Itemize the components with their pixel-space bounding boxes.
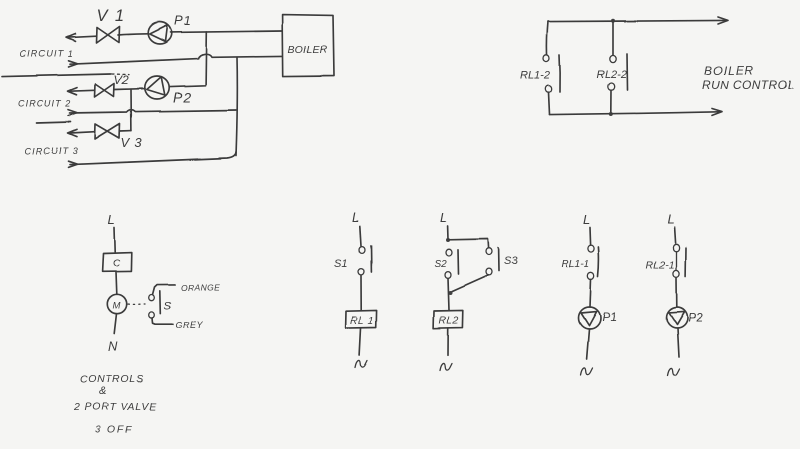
wire junction vertical to P2 bbox=[170, 32, 207, 87]
svg-text:CIRCUIT 3: CIRCUIT 3 bbox=[25, 146, 79, 156]
wire RL2 to N bbox=[447, 328, 449, 354]
svg-text:RL1-2: RL1-2 bbox=[520, 70, 550, 82]
contact RL1-2 bbox=[544, 55, 561, 92]
label V1 bbox=[96, 7, 125, 25]
label L rung2 bbox=[440, 210, 447, 225]
svg-text:S2: S2 bbox=[435, 259, 448, 270]
svg-text:RL2-1: RL2-1 bbox=[646, 259, 675, 271]
valve V1 bbox=[96, 27, 119, 44]
relay coil RL1 bbox=[346, 310, 377, 327]
label ORANGE bbox=[181, 283, 220, 293]
wire motor to N bbox=[114, 314, 116, 334]
svg-text:BOILER: BOILER bbox=[704, 64, 754, 78]
wire rung1 top bbox=[360, 226, 361, 246]
wire run-control top with arrow bbox=[548, 17, 728, 24]
label ampersand bbox=[99, 386, 106, 398]
wire circuit1 flow arrow bbox=[66, 34, 96, 41]
wire grey lead bbox=[152, 318, 173, 324]
switch S bbox=[149, 291, 161, 318]
label N rung4 bbox=[668, 369, 680, 376]
pump P2 bbox=[145, 76, 169, 99]
svg-text:C: C bbox=[113, 259, 121, 270]
node junction top bbox=[611, 19, 615, 23]
contact RL1-1 bbox=[588, 245, 599, 279]
wire left branch lower bbox=[549, 92, 550, 114]
label CIRCUIT 2 bbox=[18, 99, 72, 109]
svg-text:RL2-2: RL2-2 bbox=[597, 69, 627, 81]
node rung2 branch bbox=[446, 238, 450, 242]
label L rung4 bbox=[667, 212, 674, 227]
wire P2 to V2 bbox=[115, 88, 146, 91]
wire stray line left bbox=[2, 74, 129, 77]
label P2 rung bbox=[688, 311, 703, 325]
label P1 rung bbox=[602, 310, 617, 324]
switch S2 bbox=[445, 249, 459, 278]
svg-text:P1: P1 bbox=[174, 13, 192, 28]
label RL2-1 bbox=[646, 259, 675, 271]
wire S1 to RL1 coil bbox=[360, 275, 362, 310]
wire rung3 top bbox=[589, 228, 592, 246]
svg-text:N: N bbox=[108, 339, 118, 354]
label S2 bbox=[435, 259, 448, 270]
contact RL2-1 bbox=[673, 244, 686, 277]
svg-text:CIRCUIT 2: CIRCUIT 2 bbox=[18, 99, 72, 109]
label S1 bbox=[334, 258, 347, 270]
svg-text:GREY: GREY bbox=[175, 320, 203, 330]
svg-text:L: L bbox=[440, 210, 447, 225]
label N valve-control bbox=[108, 339, 118, 354]
svg-text:V 3: V 3 bbox=[121, 135, 143, 150]
wire dotted link to switch bbox=[128, 303, 145, 306]
boiler box bbox=[283, 15, 334, 77]
wire rung4 top bbox=[675, 228, 676, 244]
wire mid branch upper bbox=[612, 21, 614, 56]
wire P1 to N bbox=[587, 329, 589, 359]
wire RL1-1 to P1 bbox=[590, 279, 591, 307]
label RL1-2 bbox=[520, 70, 550, 82]
label RL1-1 bbox=[561, 258, 590, 270]
svg-text:BOILER: BOILER bbox=[288, 44, 328, 56]
label S3 bbox=[504, 256, 518, 268]
label V2 bbox=[114, 73, 129, 87]
label 3 OFF bbox=[95, 424, 134, 436]
contact RL2-2 bbox=[608, 54, 627, 90]
label L rung1 bbox=[352, 210, 359, 225]
valve V2 bbox=[95, 84, 115, 98]
wire left branch upper bbox=[547, 22, 548, 55]
svg-text:L: L bbox=[352, 210, 359, 225]
wire circuit3 return bbox=[69, 152, 237, 167]
wire branch to S3 bbox=[448, 239, 489, 248]
wire P1 to boiler bbox=[170, 31, 283, 32]
label L rung3 bbox=[583, 212, 590, 227]
label CONTROLS bbox=[80, 374, 144, 386]
wire V3 to branch bbox=[120, 130, 132, 132]
wire S2 to RL2 coil bbox=[448, 278, 449, 310]
wire RL2-1 to P2 bbox=[676, 277, 678, 307]
svg-text:RUN CONTROL: RUN CONTROL bbox=[702, 78, 794, 92]
node junction bottom bbox=[609, 112, 613, 116]
svg-text:V2: V2 bbox=[114, 73, 129, 87]
svg-text:P2: P2 bbox=[688, 311, 703, 325]
controls box C bbox=[103, 253, 132, 272]
svg-text:S: S bbox=[164, 301, 172, 313]
svg-text:L: L bbox=[667, 212, 674, 227]
label RL2-2 bbox=[597, 69, 627, 81]
label P1 bbox=[174, 13, 192, 28]
pump P1 rung bbox=[579, 307, 601, 329]
wire V1 to P1 bbox=[118, 34, 149, 35]
wire L to controls box bbox=[114, 228, 117, 253]
pump P2 rung bbox=[667, 307, 688, 328]
svg-text:P1: P1 bbox=[602, 310, 617, 324]
motor actuator M bbox=[107, 295, 126, 314]
svg-text:2 PORT VALVE: 2 PORT VALVE bbox=[73, 401, 158, 413]
label CIRCUIT 3 bbox=[25, 146, 79, 156]
svg-text:S1: S1 bbox=[334, 258, 347, 270]
wire V2P2 branch down to V3 bbox=[130, 89, 132, 130]
switch S1 bbox=[358, 246, 371, 275]
wire return manifold vertical bbox=[236, 58, 237, 156]
wire circuit1 return bbox=[69, 54, 283, 67]
svg-text:V 1: V 1 bbox=[96, 7, 125, 25]
pump P1 bbox=[148, 22, 172, 44]
wire circuit3 flow arrow bbox=[68, 129, 95, 136]
switch S3 bbox=[486, 248, 499, 275]
svg-text:ORANGE: ORANGE bbox=[181, 283, 220, 293]
relay coil RL2 bbox=[434, 310, 463, 328]
label N rung3 bbox=[581, 368, 593, 375]
valve V3 bbox=[95, 124, 120, 140]
label V3 bbox=[121, 135, 143, 150]
svg-text:RL1-1: RL1-1 bbox=[561, 258, 590, 270]
node rung2 join bbox=[449, 291, 453, 295]
svg-text:3 OFF: 3 OFF bbox=[95, 424, 134, 436]
wire stray stub circuit3 bbox=[37, 122, 71, 123]
svg-text:&: & bbox=[99, 386, 106, 398]
wire RL1 to N bbox=[360, 328, 361, 355]
label S bbox=[164, 301, 172, 313]
svg-text:S3: S3 bbox=[504, 256, 518, 268]
label BOILER RUN CONTROL bbox=[702, 64, 794, 93]
wire run-control bottom with arrow bbox=[550, 109, 723, 116]
label CIRCUIT 1 bbox=[20, 49, 74, 59]
svg-text:L: L bbox=[583, 212, 590, 227]
svg-text:CIRCUIT 1: CIRCUIT 1 bbox=[20, 49, 74, 59]
label BOILER bbox=[288, 44, 328, 56]
wire mid branch lower bbox=[610, 90, 612, 113]
wire rung2 top bbox=[447, 226, 449, 240]
label L valve-control bbox=[108, 212, 115, 227]
svg-text:CONTROLS: CONTROLS bbox=[80, 374, 144, 386]
wire S3 bottom to junction bbox=[452, 275, 489, 291]
wire box to motor bbox=[115, 272, 118, 295]
svg-text:RL2: RL2 bbox=[439, 316, 459, 327]
svg-text:RL 1: RL 1 bbox=[351, 316, 375, 327]
svg-text:P2: P2 bbox=[173, 89, 192, 105]
label N rung1 bbox=[356, 360, 368, 367]
svg-text:M: M bbox=[113, 301, 121, 312]
svg-text:L: L bbox=[108, 212, 115, 227]
label N rung2 bbox=[440, 363, 452, 370]
label P2 bbox=[173, 89, 192, 105]
wire circuit2 flow arrow bbox=[68, 88, 95, 95]
wire circuit2 return bbox=[69, 110, 237, 116]
label GREY bbox=[175, 320, 203, 330]
wire P2 to N bbox=[678, 328, 680, 357]
wire orange lead bbox=[153, 284, 176, 294]
label 2 PORT VALVE bbox=[73, 401, 158, 413]
